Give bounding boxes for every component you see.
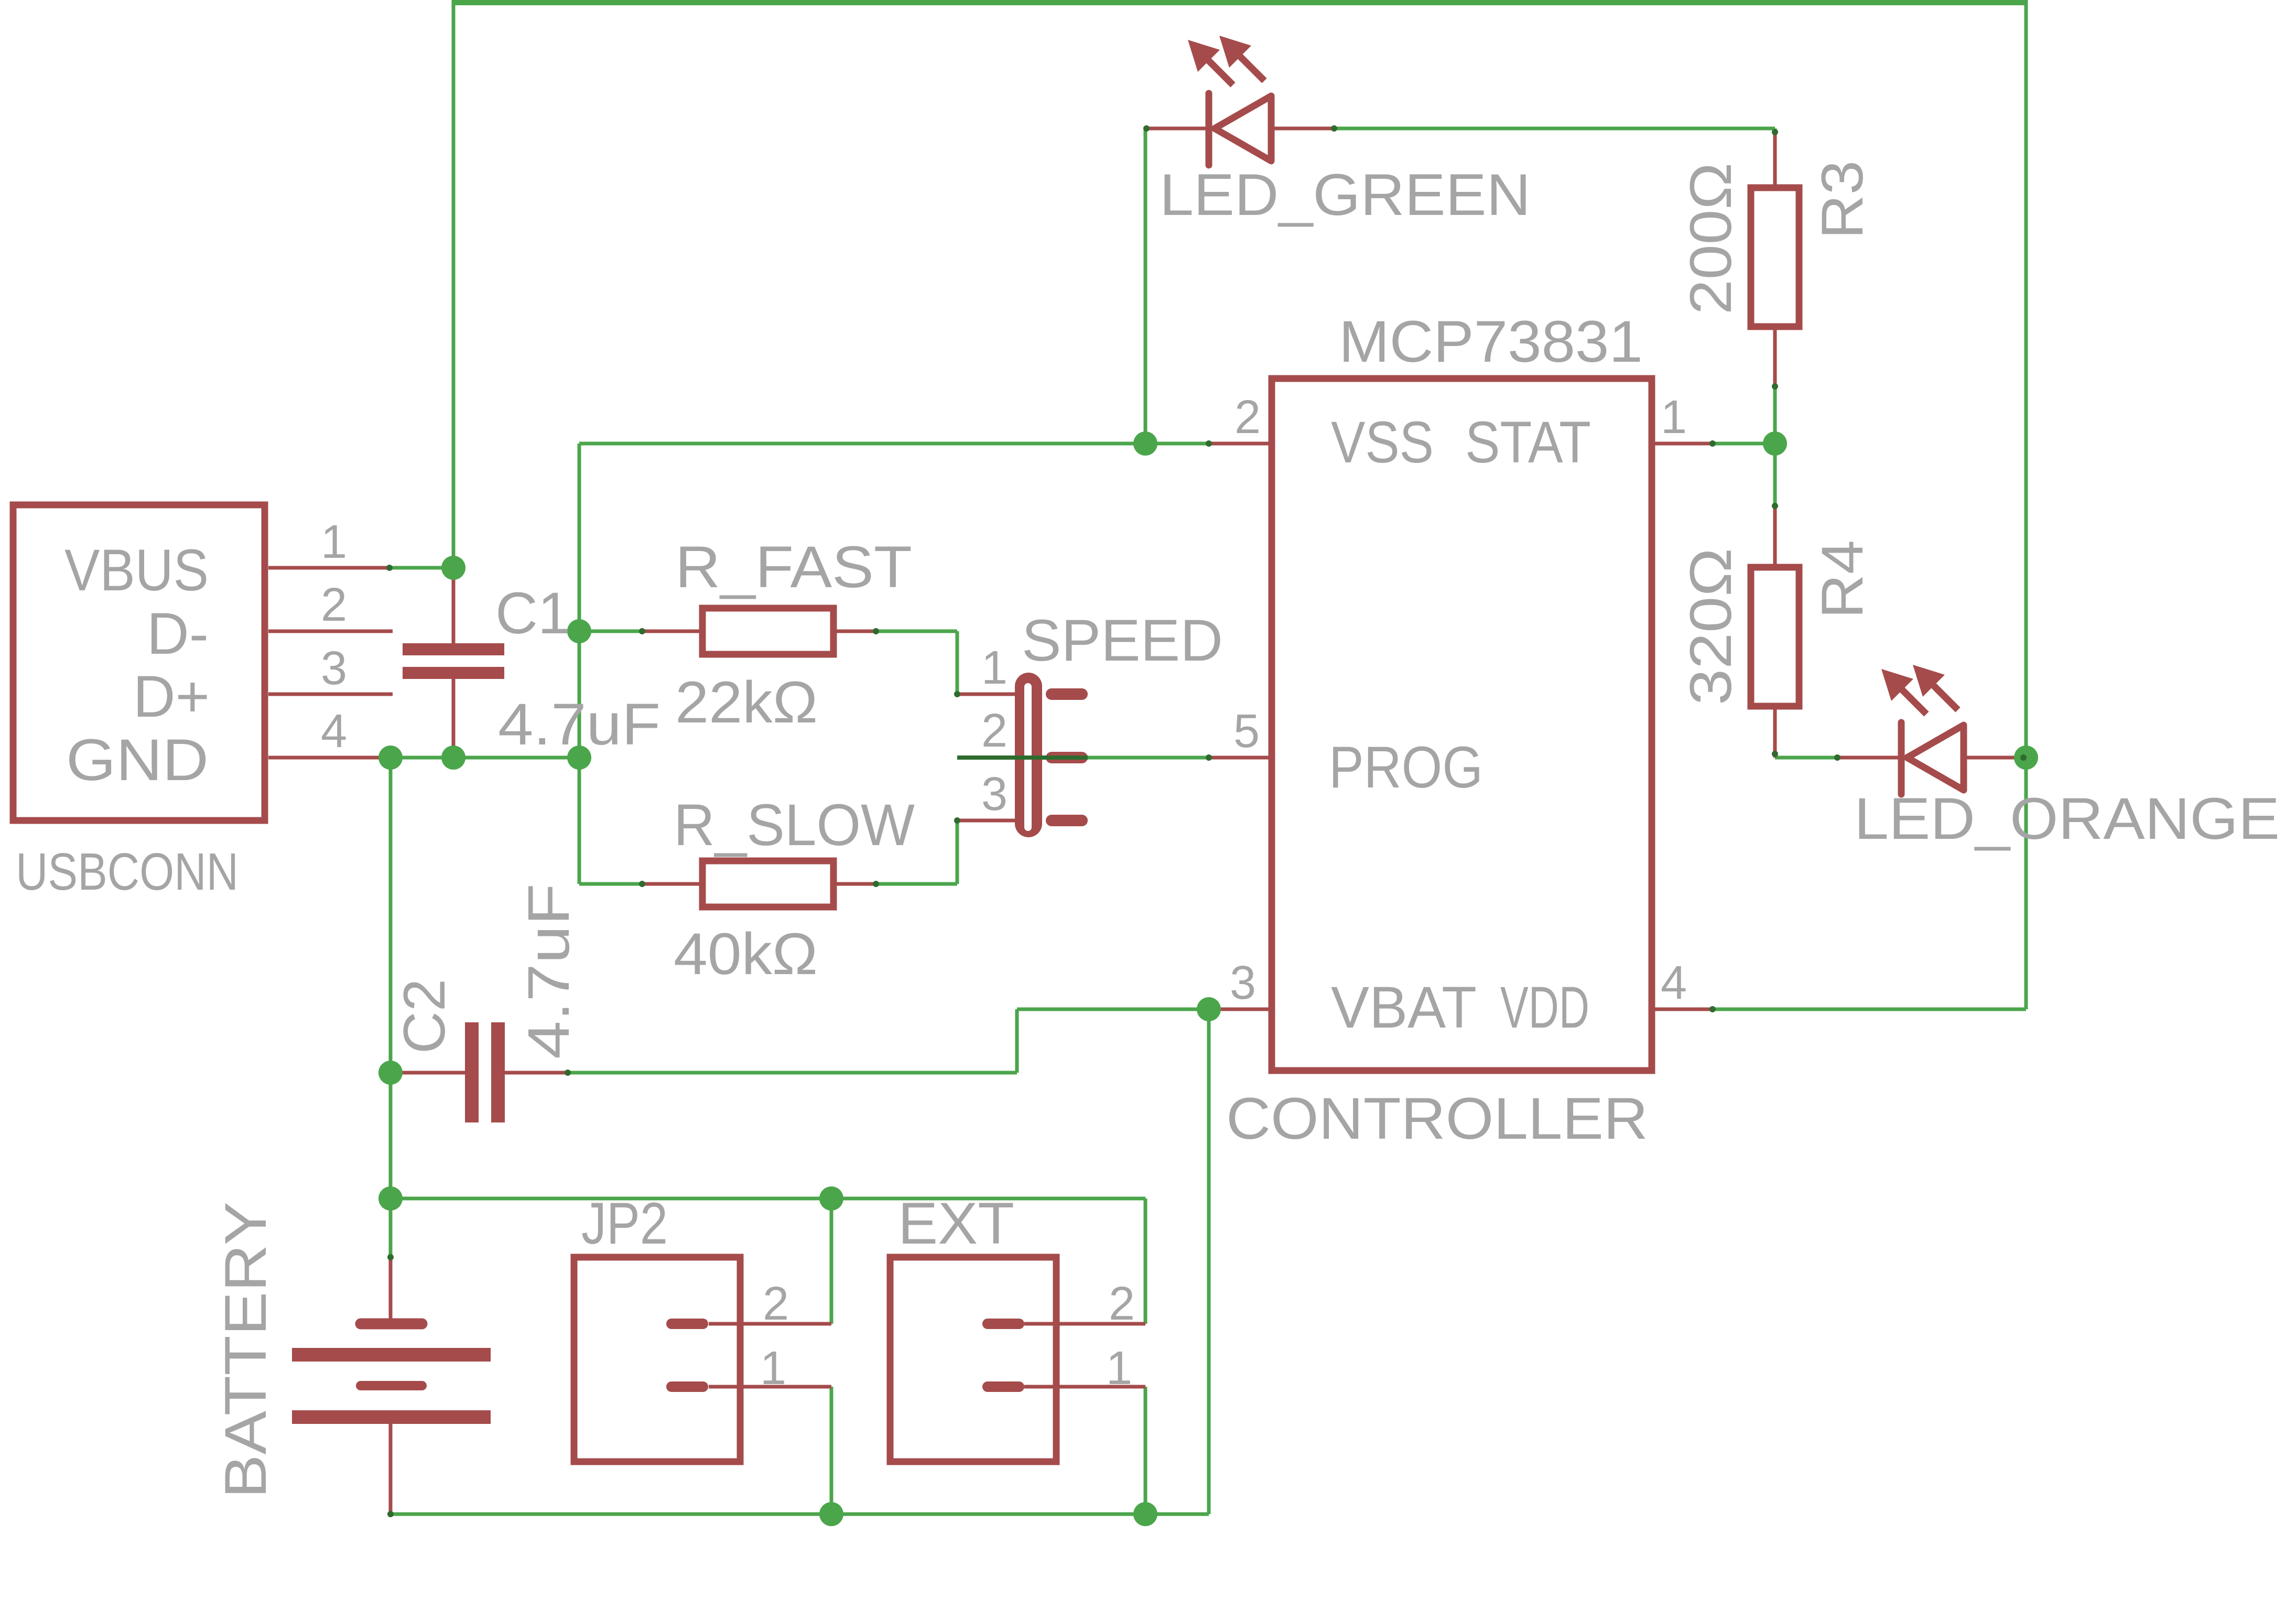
capacitor C1 plates (403, 643, 504, 655)
node pin-net transition at 743,1083 (386, 565, 393, 571)
pin wire R4 top (1773, 506, 1777, 567)
pin wire MCP pin 2 VSS (1209, 442, 1272, 446)
wire EXT pin 1 vertical (1144, 1387, 1147, 1514)
pin wire battery top (389, 1257, 393, 1319)
pin wire battery bottom (389, 1423, 393, 1514)
svg-text:4: 4 (321, 705, 347, 758)
capacitor C2 plates (465, 1022, 479, 1122)
pin wire EXT 1 (1024, 1385, 1145, 1389)
pin wire R_SLOW right (833, 882, 876, 886)
node pin-net transition at 2306,1445 (1206, 754, 1212, 761)
svg-text:2: 2 (321, 579, 347, 631)
svg-text:C2: C2 (392, 979, 457, 1054)
svg-text:LED_ORANGE: LED_ORANGE (1854, 786, 2280, 851)
ic U1 MCP73831 box (1272, 379, 1652, 1071)
svg-text:C1: C1 (495, 580, 570, 646)
svg-text:1: 1 (321, 516, 347, 568)
junction battery plus (378, 1186, 403, 1211)
led LED_ORANGE symbol (1898, 722, 1905, 794)
pin wire MCP pin 3 VBAT (1209, 1008, 1272, 1011)
svg-text:320Ω: 320Ω (1678, 548, 1743, 705)
svg-text:D+: D+ (133, 664, 210, 729)
node pin-net transition at 3386,737 (1772, 383, 1778, 390)
wire EXT pin 2 vertical (1144, 1198, 1147, 1324)
node pin-net transition at 1225,1686 (639, 881, 645, 887)
node pin-net transition at 745,2398 (387, 1254, 394, 1260)
svg-text:VBUS: VBUS (64, 537, 209, 603)
wire LED_GREEN anode to R3 (1334, 127, 1775, 131)
wire R_FAST left lead net (579, 630, 642, 633)
connector EXT box (890, 1257, 1056, 1462)
node pin-net transition at 3860,1445 (2020, 754, 2027, 761)
pin wire R3 bottom (1773, 327, 1777, 386)
svg-text:STAT: STAT (1465, 409, 1591, 475)
node pin-net transition at 3505,1445 (1834, 754, 1840, 761)
wire R_SLOW left lead net (579, 882, 642, 886)
battery BATTERY plates (361, 1319, 422, 1330)
pin wire EXT 2 (1024, 1322, 1145, 1326)
pin wire LED_GREEN anode (1271, 127, 1334, 131)
svg-text:SPEED: SPEED (1022, 608, 1223, 673)
svg-text:3: 3 (981, 768, 1008, 820)
junction VBAT pin3 (1197, 997, 1221, 1021)
pin wire USBCONN 4 (268, 756, 386, 760)
wire battery bottom row (391, 1513, 1209, 1516)
wire R4 to LED_ORANGE (1775, 756, 1837, 760)
svg-text:40kΩ: 40kΩ (674, 921, 818, 987)
svg-text:MCP73831: MCP73831 (1339, 309, 1643, 374)
wire VBUS top (453, 0, 2026, 5)
wire LED_GREEN cathode column (1144, 128, 1147, 444)
svg-text:1: 1 (760, 1342, 786, 1395)
svg-text:2: 2 (763, 1278, 789, 1330)
wire VSS row to MCP pin 2 (579, 442, 1209, 446)
wire VBUS left vertical (452, 0, 456, 568)
pin wire USBCONN 3 (268, 693, 393, 696)
junction GND C1 (441, 746, 465, 770)
svg-text:CONTROLLER: CONTROLLER (1226, 1086, 1648, 1151)
pin wire C2 right (505, 1071, 568, 1075)
jumper SPEED bar (1015, 673, 1042, 837)
pin wire JP2 1 (709, 1385, 831, 1389)
node pin-net transition at 1671,1204 (873, 628, 879, 634)
junction R_FAST VSS (567, 619, 591, 643)
pin wire SPEED 3 (957, 819, 1042, 823)
wire VBUS right vertical (2024, 0, 2028, 1009)
svg-text:LED_GREEN: LED_GREEN (1160, 162, 1531, 228)
junction JP2 pin1 bottom (819, 1502, 843, 1526)
junction STAT R3 R4 (1763, 431, 1787, 456)
pin wire C1 bottom (452, 679, 456, 758)
svg-text:D-: D- (147, 601, 209, 666)
svg-text:5: 5 (1233, 705, 1260, 758)
svg-text:GND: GND (66, 727, 209, 793)
junction EXT pin1 bottom (1133, 1502, 1157, 1526)
wire STAT node (1713, 442, 1775, 446)
wire GND row (386, 756, 579, 760)
led LED_GREEN arrows (1208, 60, 1233, 85)
connector USBCONN box (13, 505, 265, 820)
node pin-net transition at 2187,245 (1143, 125, 1150, 132)
svg-text:2: 2 (1109, 1278, 1135, 1330)
svg-text:4: 4 (1661, 957, 1687, 1009)
node pin-net transition at 1826,1324 (954, 691, 960, 697)
connector JP2 box (574, 1257, 740, 1462)
node pin-net transition at 1083,2046 (565, 1070, 571, 1076)
resistor R4 body (1751, 567, 1799, 706)
node pin-net transition at 3386,252 (1772, 129, 1778, 135)
pin wire R3 top (1773, 132, 1777, 188)
svg-text:R4: R4 (1810, 540, 1875, 619)
resistor R_SLOW body (702, 861, 833, 907)
pin wire USBCONN 2 (268, 630, 393, 633)
node pin-net transition at 3386,965 (1772, 503, 1778, 509)
pin wire R4 bottom (1773, 706, 1777, 758)
svg-text:2: 2 (1234, 391, 1261, 444)
connector EXT pin stubs (988, 1319, 1019, 1329)
pin wire C2 left (397, 1071, 465, 1075)
node pin-net transition at 2545,245 (1331, 125, 1337, 132)
junction VBUS C1 (441, 556, 465, 580)
pin wire MCP pin 4 VDD (1652, 1008, 1713, 1011)
svg-text:3: 3 (1230, 957, 1256, 1009)
node pin-net transition at 3267,846 (1709, 440, 1716, 447)
wire PROG to MCP pin 5 (1088, 756, 1209, 760)
wire R_SLOW right net (876, 882, 957, 886)
wire VBUS to VDD pin 4 (1713, 1008, 2026, 1011)
svg-text:JP2: JP2 (581, 1191, 668, 1256)
node pin-net transition at 1671,1686 (873, 881, 879, 887)
pin wire LED_ORANGE cathode (1837, 756, 1898, 760)
wire JP2 pin 1 vertical (830, 1387, 833, 1514)
svg-text:USBCONN: USBCONN (16, 843, 239, 901)
connector JP2 pin stubs (672, 1319, 703, 1329)
svg-text:EXT: EXT (898, 1191, 1014, 1256)
jumper SPEED pin stubs (1052, 688, 1082, 700)
svg-text:PROG: PROG (1329, 735, 1483, 800)
svg-text:VSS: VSS (1331, 409, 1434, 475)
pin wire LED_ORANGE anode (1963, 756, 2023, 760)
svg-text:1: 1 (981, 642, 1008, 694)
junction GND v2 (567, 746, 591, 770)
pin wire LED_GREEN cathode (1146, 127, 1206, 131)
wire PROG dark overlap segment (957, 755, 1088, 760)
wire battery plus stub (389, 1198, 393, 1257)
led LED_GREEN symbol (1206, 93, 1212, 165)
node pin-net transition at 3267,1925 (1709, 1006, 1716, 1012)
junction C2 GND (378, 1061, 403, 1085)
svg-text:1: 1 (1661, 391, 1687, 444)
resistor R_FAST body (702, 608, 833, 654)
node pin-net transition at 745,2888 (387, 1511, 394, 1517)
svg-text:200Ω: 200Ω (1678, 163, 1743, 315)
wire VBAT net from C2 (568, 1071, 1017, 1075)
svg-text:4.7uF: 4.7uF (516, 883, 581, 1059)
wire R_FAST right net (876, 630, 957, 633)
svg-text:BATTERY: BATTERY (213, 1202, 278, 1498)
svg-text:22kΩ: 22kΩ (675, 669, 818, 735)
pin wire R_FAST left (642, 630, 702, 633)
pin wire SPEED 1 (957, 693, 1042, 696)
svg-text:1: 1 (1106, 1342, 1132, 1395)
pin wire R_SLOW left (642, 882, 702, 886)
svg-text:VBAT: VBAT (1331, 975, 1477, 1040)
svg-text:VDD: VDD (1500, 975, 1589, 1040)
pin wire MCP pin 1 STAT (1652, 442, 1713, 446)
junction VSS LED_GREEN (1133, 431, 1157, 456)
node pin-net transition at 1826,1565 (954, 817, 960, 824)
pin wire JP2 2 (709, 1322, 831, 1326)
wire VBAT vertical v6 (1207, 1009, 1211, 1514)
led LED_ORANGE arrows (1902, 689, 1926, 714)
node pin-net transition at 3386,1438 (1772, 751, 1778, 757)
resistor R3 body (1751, 188, 1799, 327)
junction LED_ORANGE VBUS (2014, 746, 2038, 770)
junction GND pin4 (378, 746, 403, 770)
svg-text:2: 2 (981, 705, 1008, 757)
wire GND column (389, 758, 393, 1198)
pin wire C1 top (452, 568, 456, 643)
pin wire R_FAST right (833, 630, 876, 633)
wire VBUS pin 1 stub (389, 566, 453, 570)
pin wire MCP pin 5 PROG (1209, 756, 1272, 760)
wire JP2 pin 2 vertical (830, 1198, 833, 1324)
node pin-net transition at 2306,846 (1206, 440, 1212, 447)
svg-text:4.7uF: 4.7uF (498, 692, 660, 757)
node pin-net transition at 1225,1204 (639, 628, 645, 634)
svg-text:R_FAST: R_FAST (675, 534, 912, 600)
svg-text:R3: R3 (1810, 160, 1875, 239)
junction JP2 pin2 top (819, 1186, 843, 1211)
pin wire USBCONN 1 (268, 566, 389, 570)
svg-text:R_SLOW: R_SLOW (674, 792, 915, 858)
wire VSS vertical v2 (578, 444, 581, 884)
svg-text:3: 3 (321, 642, 347, 695)
wire battery plus row to JP2 EXT (391, 1197, 1145, 1201)
